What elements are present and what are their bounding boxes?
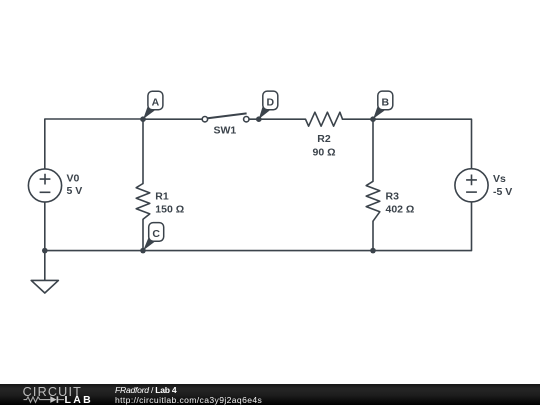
footer bar: [0, 384, 540, 405]
junction dot node C: [140, 248, 146, 254]
node B callout: [373, 91, 393, 119]
svg-text:B: B: [382, 97, 390, 109]
wire node B to R3 top: [372, 119, 374, 181]
resistor R1: [136, 184, 150, 220]
junction dot node D: [256, 116, 262, 122]
junction dot R3 bottom: [370, 248, 376, 254]
wire node A to R1 top: [142, 119, 144, 183]
wire bottom (node C to R3 bottom): [143, 250, 373, 252]
voltage source Vs: [455, 169, 488, 202]
voltage source V0: [28, 169, 61, 202]
svg-text:V0: V0: [67, 172, 80, 184]
svg-text:LAB: LAB: [65, 395, 93, 405]
svg-text:150 Ω: 150 Ω: [155, 203, 184, 215]
switch SW1: [202, 113, 249, 122]
wire Vs bottom to bottom-right corner: [373, 202, 472, 251]
CircuitLab logo: [0, 384, 100, 405]
svg-text:-5 V: -5 V: [493, 186, 512, 198]
wire top-left (V0 top to node A): [45, 119, 143, 169]
svg-text:D: D: [267, 97, 275, 109]
label Vs value: [493, 173, 512, 198]
logo word CIRCUIT: [23, 386, 82, 400]
junction dot node B: [370, 116, 376, 122]
wire switch SW1 right terminal to node D to R2: [249, 118, 306, 120]
wire ground stem: [44, 251, 46, 281]
label V0 value: [67, 172, 83, 197]
svg-text:Vs: Vs: [493, 173, 506, 185]
wire V0 bottom to ground node: [44, 202, 46, 251]
logo diode lead: [58, 399, 64, 401]
label R1 value: [155, 190, 184, 215]
svg-text:R1: R1: [155, 190, 169, 202]
svg-text:A: A: [152, 97, 160, 109]
svg-text:90 Ω: 90 Ω: [312, 146, 335, 158]
svg-text:5 V: 5 V: [67, 185, 83, 197]
node C callout: [143, 223, 164, 251]
footer url line: [115, 396, 262, 405]
svg-text:C: C: [152, 228, 160, 240]
wire bottom-left (ground node to node C): [45, 250, 143, 252]
node D callout: [259, 91, 278, 119]
wire R1 bottom to node C: [142, 219, 144, 250]
label SW1: [214, 125, 237, 137]
wire R3 bottom to bottom wire: [372, 221, 374, 250]
logo word LAB: [65, 395, 93, 405]
ground: [31, 280, 58, 293]
logo diode: [50, 397, 58, 404]
resistor R3: [366, 181, 380, 221]
node A callout: [143, 91, 163, 119]
svg-text:R2: R2: [317, 133, 331, 145]
footer credit line: [115, 386, 176, 395]
junction dot node A: [140, 116, 146, 122]
svg-text:SW1: SW1: [214, 125, 237, 137]
wire R2 to node B to top-right (Vs top): [343, 119, 472, 168]
label R2 value: [312, 133, 335, 158]
logo resistor zigzag: [24, 397, 51, 402]
svg-text:402 Ω: 402 Ω: [386, 203, 415, 215]
label R3 value: [386, 190, 415, 215]
svg-text:R3: R3: [386, 190, 400, 202]
wire node A to switch SW1 left terminal: [143, 118, 202, 120]
resistor R2: [306, 112, 343, 126]
junction dot ground node: [42, 248, 48, 254]
